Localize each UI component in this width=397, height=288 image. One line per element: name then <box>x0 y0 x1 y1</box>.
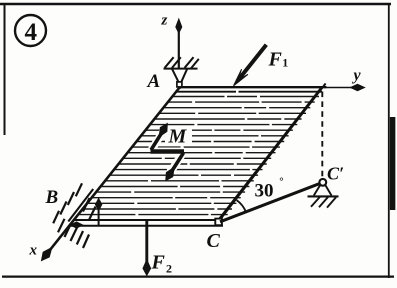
svg-text:y: y <box>352 67 362 84</box>
svg-text:F: F <box>268 49 283 71</box>
svg-text:2: 2 <box>166 262 172 276</box>
svg-text:C: C <box>207 230 221 252</box>
svg-text:1: 1 <box>282 56 288 70</box>
svg-text:B: B <box>45 187 59 208</box>
svg-text:x: x <box>29 243 38 259</box>
svg-text:z: z <box>161 13 168 29</box>
svg-text:C′: C′ <box>327 164 344 184</box>
svg-text:°: ° <box>279 176 283 188</box>
svg-text:F: F <box>151 252 166 274</box>
svg-text:A: A <box>147 71 161 92</box>
svg-text:M: M <box>168 126 188 148</box>
svg-text:30: 30 <box>255 181 274 202</box>
svg-text:4: 4 <box>25 19 38 46</box>
